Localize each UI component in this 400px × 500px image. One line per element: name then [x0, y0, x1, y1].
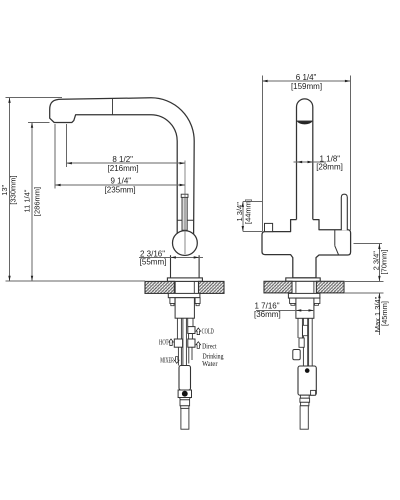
mounting bolt right — [195, 298, 200, 304]
dim 2 3/16" line — [139, 256, 203, 258]
ext line 9 1/4 — [54, 124, 56, 189]
countertop right block — [199, 281, 225, 293]
dim 8 1/2" line — [67, 162, 186, 164]
valve body — [175, 298, 194, 319]
spout seam — [112, 98, 114, 115]
spout body outline — [50, 98, 195, 234]
direct drinking water fitting — [188, 339, 195, 347]
dim Max 1 3/4" line — [378, 293, 380, 335]
svg-text:COLD: COLD — [202, 328, 214, 336]
inner sleeve — [303, 325, 308, 335]
filter notch — [311, 390, 316, 395]
svg-text:HOT: HOT — [159, 339, 169, 347]
shank in hole left — [174, 281, 176, 293]
countertop right block front — [316, 281, 344, 293]
svg-text:[235mm]: [235mm] — [105, 186, 136, 195]
cold supply tube — [187, 318, 189, 326]
tube 3 front — [308, 318, 310, 366]
svg-text:[55mm]: [55mm] — [140, 258, 167, 267]
bolt right front — [313, 298, 320, 303]
svg-text:11 1/4": 11 1/4" — [23, 189, 32, 212]
dim 1 1/8" line — [294, 161, 327, 163]
svg-text:Water: Water — [202, 360, 218, 368]
side fitting front — [293, 350, 300, 360]
tube 1 front — [297, 318, 299, 338]
ring 2 front — [301, 402, 309, 406]
ring 1 front — [300, 398, 310, 402]
spout tube with dome top — [297, 99, 313, 220]
filtered water knob — [265, 223, 273, 231]
dim 1 3/4" line — [242, 202, 244, 232]
base column left edge — [170, 255, 172, 278]
svg-text:[44mm]: [44mm] — [244, 199, 253, 224]
mixer center tube — [182, 318, 184, 365]
svg-text:8 1/2": 8 1/2" — [112, 155, 133, 164]
tube below hot fitting — [177, 347, 179, 365]
mounting washer — [168, 293, 200, 297]
ring 2 — [181, 406, 189, 409]
tube 2 front — [302, 318, 304, 366]
ext counter bottom right — [344, 292, 384, 294]
dim 11 1/4" line — [31, 122, 33, 281]
washer front — [288, 293, 320, 298]
base flange front — [286, 278, 320, 281]
dim 6 1/4" line — [262, 80, 350, 82]
svg-text:Direct: Direct — [202, 342, 217, 350]
svg-text:[159mm]: [159mm] — [291, 82, 322, 91]
svg-text:9 1/4": 9 1/4" — [110, 176, 131, 185]
taper — [180, 398, 191, 400]
dim 2 3/4" line — [378, 244, 380, 282]
countertop left block front — [264, 281, 292, 293]
svg-text:[216mm]: [216mm] — [108, 164, 139, 173]
ext 1 3/4 bottom — [243, 230, 262, 232]
outlet hose front — [300, 406, 308, 429]
mounting bolt left — [170, 298, 175, 304]
neck joint line — [177, 219, 193, 221]
countertop left block — [145, 281, 174, 293]
outlet hose — [181, 408, 189, 429]
ext line 8 1/2 — [66, 124, 68, 167]
ext 6 1/4 right — [349, 76, 351, 230]
hot supply tube — [176, 318, 178, 339]
sensor block — [178, 390, 191, 398]
filter unit — [298, 366, 316, 395]
shank in hole — [295, 281, 297, 293]
svg-text:6 1/4": 6 1/4" — [296, 73, 317, 82]
svg-text:[286mm]: [286mm] — [33, 187, 42, 216]
faucet body front — [262, 220, 351, 278]
bolt left front — [290, 298, 297, 303]
hot fitting — [174, 339, 182, 347]
dim 13" line — [9, 98, 11, 281]
shank in hole right — [193, 281, 195, 293]
svg-text:[45mm]: [45mm] — [380, 301, 389, 326]
ext line top (13") — [6, 97, 63, 99]
base column right edge — [198, 255, 200, 278]
base flange — [167, 278, 202, 282]
ext line counter level — [6, 280, 146, 282]
lever handle (edge-on) cap — [181, 194, 188, 197]
tube below ddw fitting — [188, 347, 190, 363]
svg-text:MIXER: MIXER — [160, 356, 174, 364]
centerline — [184, 161, 186, 255]
lever handle (edge-on) bar — [182, 197, 187, 230]
ring 1 — [180, 400, 190, 406]
check valve capsule — [179, 366, 191, 391]
tube below cold fitting — [188, 334, 190, 340]
lever handle rod — [341, 194, 347, 230]
svg-text:[70mm]: [70mm] — [380, 249, 389, 274]
taper front — [300, 395, 309, 398]
ext 1 3/4 top — [243, 201, 262, 203]
ext 2 3/4 top — [354, 243, 383, 245]
ext line spout outlet (11 1/4") — [28, 121, 50, 123]
fitting front — [299, 338, 304, 347]
ball joint — [173, 231, 198, 256]
label COLD — [196, 328, 201, 335]
svg-text:[36mm]: [36mm] — [254, 310, 281, 319]
dim 1 7/16" line — [256, 309, 314, 311]
svg-text:[28mm]: [28mm] — [316, 163, 343, 172]
handle base diagonal — [335, 246, 339, 255]
ext 6 1/4 left — [261, 76, 263, 232]
aerator lens — [297, 121, 313, 124]
dim 9 1/4" line — [55, 184, 185, 186]
svg-text:[330mm]: [330mm] — [9, 175, 18, 204]
handle base edge — [334, 230, 336, 246]
valve body front — [296, 298, 314, 318]
ext counter top right — [344, 280, 384, 282]
label Direct Drinking Water — [196, 342, 201, 349]
cold fitting — [188, 327, 195, 334]
